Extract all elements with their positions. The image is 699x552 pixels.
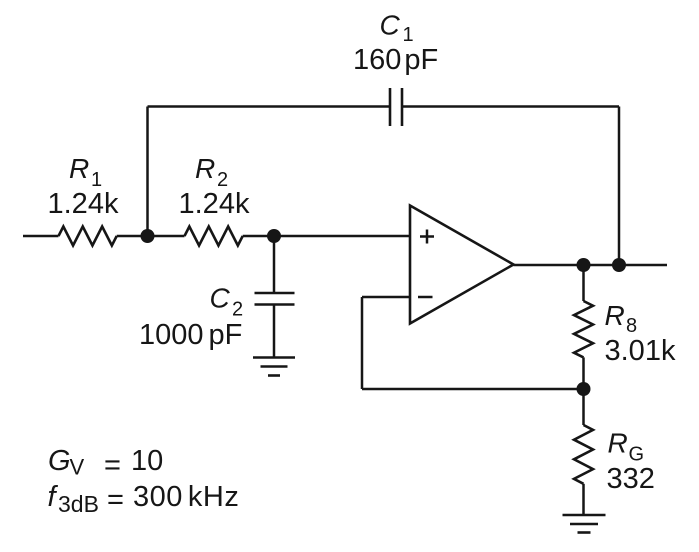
resistor R8 — [574, 301, 593, 357]
svg-text:300kHz: 300kHz — [133, 481, 239, 513]
svg-text:C: C — [210, 283, 231, 314]
svg-text:f: f — [48, 481, 59, 513]
wire to op-amp inverting input — [362, 296, 410, 299]
resistor R2 — [185, 227, 243, 246]
label RG — [608, 428, 645, 466]
wire node C down to R8 — [582, 265, 585, 301]
wire node B to op-amp noninverting input — [274, 235, 410, 238]
resistor R1 — [59, 227, 117, 246]
annotation f3dB = 300kHz — [48, 481, 240, 517]
svg-text:C: C — [380, 10, 401, 41]
node B junction dot — [267, 229, 281, 243]
node C junction dot (output to R8) — [577, 258, 591, 272]
svg-text:1000pF: 1000pF — [139, 319, 242, 351]
wire feedback rail right segment — [402, 105, 619, 108]
svg-text:1: 1 — [403, 24, 414, 46]
svg-text:V: V — [70, 455, 85, 480]
wire R8 to node E — [582, 357, 585, 389]
svg-text:R: R — [605, 300, 625, 331]
wire R2 to node B — [243, 235, 274, 238]
svg-text:=: = — [107, 484, 124, 516]
label R2 — [195, 153, 228, 191]
svg-text:R: R — [608, 428, 628, 459]
svg-text:G: G — [48, 445, 71, 477]
ground (RG) — [563, 515, 606, 533]
wire feedback up — [361, 297, 364, 389]
wire node E down to RG — [582, 389, 585, 425]
wire R1 to node A — [117, 235, 148, 238]
svg-text:332: 332 — [607, 463, 655, 495]
resistor RG — [574, 425, 593, 484]
wire feedback rail left segment — [148, 105, 391, 108]
svg-text:R: R — [69, 153, 89, 184]
svg-text:3dB: 3dB — [58, 491, 99, 517]
node E junction dot — [577, 382, 591, 396]
capacitor C1 — [390, 88, 402, 126]
op-amp U1 — [410, 206, 514, 324]
wire feedback from node E to below op-amp — [362, 388, 584, 391]
wire C2 bottom to ground — [273, 305, 276, 358]
svg-text:1.24k: 1.24k — [179, 188, 250, 220]
op-amp minus input marker — [418, 296, 433, 299]
node A junction dot — [141, 229, 155, 243]
svg-text:=: = — [104, 450, 121, 482]
label C1 — [380, 10, 414, 47]
svg-text:1.24k: 1.24k — [48, 188, 119, 220]
wire C2 top: node B down to capacitor — [273, 236, 276, 293]
label R1 — [69, 153, 102, 191]
svg-text:8: 8 — [626, 315, 637, 337]
wire RG to ground — [582, 484, 585, 515]
svg-text:10: 10 — [131, 445, 163, 477]
ground (C2) — [253, 358, 295, 376]
annotation GV = 10 — [48, 445, 163, 482]
wire node A to R2 — [148, 235, 185, 238]
svg-text:160pF: 160pF — [353, 44, 438, 76]
node D junction dot (output to C1 rail) — [612, 258, 626, 272]
svg-text:R: R — [195, 153, 215, 184]
capacitor C2 — [255, 293, 295, 305]
op-amp plus input marker — [420, 230, 434, 244]
svg-text:3.01k: 3.01k — [605, 335, 676, 367]
wire feedback rail down to output node D — [618, 107, 621, 266]
wire node A up to feedback rail — [146, 107, 149, 237]
label C2 — [210, 283, 244, 321]
wire input lead — [23, 235, 59, 238]
wire output — [514, 264, 668, 267]
label R8 — [605, 300, 638, 337]
svg-text:2: 2 — [232, 299, 243, 321]
